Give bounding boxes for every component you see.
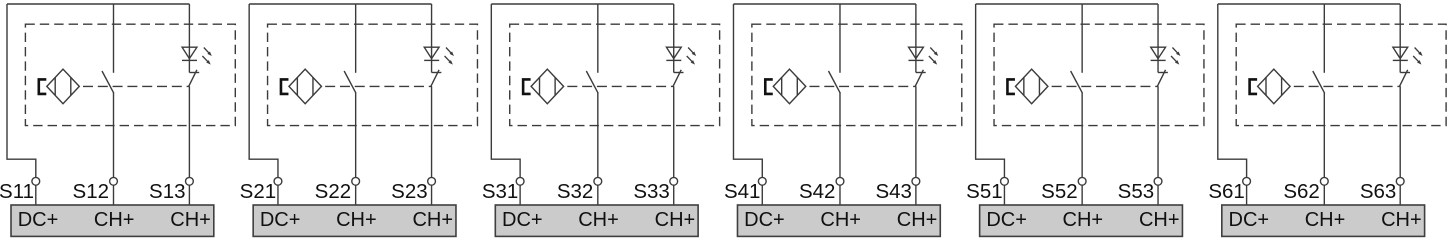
wire top bus B6 — [1218, 3, 1400, 5]
LED D6 emission arrow 1 — [1415, 48, 1423, 57]
terminal node S62 — [1320, 177, 1328, 185]
svg-text:CH+: CH+ — [412, 209, 453, 231]
svg-text:S51: S51 — [966, 180, 1002, 203]
sensor enclosure (dashed) B4 — [752, 24, 962, 125]
proximity sensor B1 bracket — [39, 79, 47, 94]
LED D6 cathode bar — [1393, 59, 1408, 61]
LED D3 emission arrow 1 — [688, 48, 696, 57]
LED D1 cathode bar — [182, 59, 197, 61]
svg-text:DC+: DC+ — [1229, 209, 1270, 231]
wire DC+ branch (S31) — [491, 4, 520, 177]
wire top bus B2 — [249, 3, 431, 5]
sensor enclosure (dashed) B6 — [1236, 24, 1446, 125]
svg-text:S31: S31 — [482, 180, 518, 203]
LED D5 (triangle) — [1151, 47, 1166, 58]
svg-text:DC+: DC+ — [18, 209, 59, 231]
proximity sensor B3 diamond — [531, 69, 564, 104]
terminal node S21 — [274, 177, 282, 185]
terminal node S53 — [1154, 177, 1162, 185]
wire right branch upper (through LED) B1 — [188, 4, 190, 73]
svg-text:CH+: CH+ — [336, 209, 377, 231]
wire right branch lower (S13) — [188, 86, 190, 177]
wire DC+ branch (S21) — [249, 4, 278, 177]
svg-text:DC+: DC+ — [744, 209, 785, 231]
sensor block B6 — [1208, 4, 1446, 236]
LED D2 emission arrow 1 — [446, 48, 454, 57]
switch contact K6b fixed tick — [1400, 72, 1410, 74]
terminal node S43 — [912, 177, 920, 185]
terminal node S61 — [1243, 177, 1251, 185]
mechanical link (dashed) B4 — [809, 85, 916, 87]
svg-text:S12: S12 — [73, 180, 109, 203]
svg-text:CH+: CH+ — [897, 209, 938, 231]
terminal block TB4 — [737, 205, 940, 236]
terminal node S42 — [836, 177, 844, 185]
terminal block TB2 — [253, 205, 456, 236]
switch contact K6a (movable arm) — [1313, 71, 1325, 93]
terminal node S32 — [594, 177, 602, 185]
LED D3 emission arrow 2 — [687, 56, 695, 65]
svg-text:S22: S22 — [315, 180, 351, 203]
LED D1 emission arrow 1 — [204, 48, 212, 57]
proximity sensor B6 bracket — [1250, 79, 1258, 94]
sensor enclosure (dashed) B5 — [994, 24, 1204, 125]
wire middle branch lower (S42) — [839, 93, 841, 178]
wire middle branch upper (to switch) B6 — [1323, 4, 1325, 73]
LED D2 emission arrow 2 — [445, 56, 453, 65]
mechanical link (dashed) B6 — [1294, 85, 1401, 87]
switch contact K5a (movable arm) — [1071, 71, 1083, 93]
wire right branch upper (through LED) B5 — [1157, 4, 1159, 73]
wire top bus B1 — [7, 3, 189, 5]
switch contact K1b fixed tick — [189, 72, 199, 74]
svg-text:CH+: CH+ — [1305, 209, 1346, 231]
terminal node S41 — [758, 177, 766, 185]
terminal node S52 — [1078, 177, 1086, 185]
terminal block TB3 — [495, 205, 698, 236]
svg-text:S21: S21 — [240, 180, 276, 203]
LED D4 emission arrow 1 — [930, 48, 938, 57]
wire right branch lower (S33) — [673, 86, 675, 177]
wire middle branch upper (to switch) B2 — [355, 4, 357, 73]
wire top bus B5 — [976, 3, 1158, 5]
wire middle branch lower (S22) — [355, 93, 357, 178]
svg-text:CH+: CH+ — [820, 209, 861, 231]
proximity sensor B3 inner line 2 — [554, 77, 556, 95]
mechanical link (dashed) B5 — [1052, 85, 1159, 87]
wire right branch lower (S53) — [1157, 86, 1159, 177]
wire top bus B4 — [733, 3, 915, 5]
LED D3 (triangle) — [666, 47, 681, 58]
wire right branch upper (through LED) B2 — [431, 4, 433, 73]
wire middle branch lower (S32) — [597, 93, 599, 178]
sensor block B1 — [0, 4, 235, 236]
LED D4 (triangle) — [909, 47, 924, 58]
wire right branch lower (S43) — [915, 86, 917, 177]
switch contact K1b (movable arm) — [189, 70, 197, 87]
switch contact K2b fixed tick — [432, 72, 442, 74]
svg-text:S52: S52 — [1041, 180, 1077, 203]
proximity sensor B2 inner line 1 — [296, 77, 298, 95]
sensor enclosure (dashed) B3 — [510, 24, 720, 125]
switch contact K4b fixed tick — [916, 72, 926, 74]
proximity sensor B4 bracket — [765, 79, 773, 94]
terminal node S31 — [516, 177, 524, 185]
LED D6 (triangle) — [1393, 47, 1408, 58]
switch contact K2b (movable arm) — [431, 70, 439, 87]
proximity sensor B2 bracket — [281, 79, 289, 94]
LED D1 (triangle) — [182, 47, 197, 58]
terminal node S51 — [1001, 177, 1009, 185]
svg-text:S11: S11 — [0, 180, 34, 203]
switch contact K1a (movable arm) — [102, 71, 114, 93]
svg-text:DC+: DC+ — [260, 209, 301, 231]
svg-text:S23: S23 — [391, 180, 427, 203]
wire right branch upper (through LED) B3 — [673, 4, 675, 73]
LED D4 cathode bar — [908, 59, 923, 61]
svg-text:S61: S61 — [1208, 180, 1244, 203]
proximity sensor B4 inner line 2 — [796, 77, 798, 95]
proximity sensor B5 bracket — [1007, 79, 1015, 94]
proximity sensor B1 inner line 1 — [54, 77, 56, 95]
mechanical link (dashed) B3 — [567, 85, 674, 87]
sensor enclosure (dashed) B2 — [268, 24, 478, 125]
terminal node S13 — [186, 177, 194, 185]
proximity sensor B1 inner line 2 — [70, 77, 72, 95]
LED D5 emission arrow 1 — [1172, 48, 1180, 57]
svg-text:S63: S63 — [1360, 180, 1396, 203]
svg-text:CH+: CH+ — [94, 209, 135, 231]
sensor block B3 — [482, 4, 720, 236]
switch contact K3b (movable arm) — [673, 70, 681, 87]
svg-text:S13: S13 — [149, 180, 185, 203]
terminal block TB5 — [980, 205, 1183, 236]
terminal node S23 — [428, 177, 436, 185]
switch contact K3a (movable arm) — [586, 71, 598, 93]
proximity sensor B4 diamond — [773, 69, 806, 104]
terminal node S11 — [32, 177, 40, 185]
proximity sensor B5 inner line 1 — [1023, 77, 1025, 95]
proximity sensor B5 inner line 2 — [1038, 77, 1040, 95]
proximity sensor B5 diamond — [1015, 69, 1047, 104]
proximity sensor B6 inner line 1 — [1265, 77, 1267, 95]
wire right branch lower (S23) — [431, 86, 433, 177]
LED D1 emission arrow 2 — [202, 56, 210, 65]
wire middle branch lower (S62) — [1323, 93, 1325, 178]
proximity sensor B4 inner line 1 — [781, 77, 783, 95]
wire middle branch upper (to switch) B1 — [113, 4, 115, 73]
wire DC+ branch (S61) — [1218, 4, 1247, 177]
terminal block TB6 — [1222, 205, 1425, 236]
svg-text:CH+: CH+ — [1139, 209, 1180, 231]
svg-text:DC+: DC+ — [502, 209, 543, 231]
switch contact K5b (movable arm) — [1157, 70, 1165, 87]
sensor block B2 — [240, 4, 478, 236]
LED D3 cathode bar — [666, 59, 681, 61]
svg-text:CH+: CH+ — [578, 209, 619, 231]
wire middle branch upper (to switch) B5 — [1081, 4, 1083, 73]
wire right branch lower (S63) — [1399, 86, 1401, 177]
svg-text:CH+: CH+ — [1381, 209, 1422, 231]
proximity sensor B2 diamond — [289, 69, 322, 104]
LED D5 emission arrow 2 — [1171, 56, 1179, 65]
svg-text:DC+: DC+ — [986, 209, 1027, 231]
svg-text:CH+: CH+ — [655, 209, 696, 231]
svg-text:S62: S62 — [1283, 180, 1319, 203]
terminal node S12 — [110, 177, 118, 185]
wire middle branch upper (to switch) B4 — [839, 4, 841, 73]
terminal block TB1 — [11, 205, 214, 236]
svg-text:S32: S32 — [557, 180, 593, 203]
wire top bus B3 — [491, 3, 673, 5]
terminal node S63 — [1396, 177, 1404, 185]
LED D5 cathode bar — [1151, 59, 1166, 61]
sensor enclosure (dashed) B1 — [25, 24, 235, 125]
proximity sensor B2 inner line 2 — [312, 77, 314, 95]
switch contact K6b (movable arm) — [1399, 70, 1407, 87]
proximity sensor B6 inner line 2 — [1281, 77, 1283, 95]
svg-text:S53: S53 — [1118, 180, 1154, 203]
wire DC+ branch (S51) — [976, 4, 1005, 177]
proximity sensor B3 inner line 1 — [539, 77, 541, 95]
svg-text:CH+: CH+ — [1063, 209, 1104, 231]
proximity sensor B6 diamond — [1258, 69, 1291, 104]
wire middle branch lower (S52) — [1081, 93, 1083, 178]
terminal node S22 — [352, 177, 360, 185]
LED D6 emission arrow 2 — [1413, 56, 1421, 65]
wire middle branch lower (S12) — [113, 93, 115, 178]
wire right branch upper (through LED) B6 — [1399, 4, 1401, 73]
proximity sensor B1 diamond — [47, 69, 80, 104]
switch contact K2a (movable arm) — [344, 71, 356, 93]
proximity sensor B3 bracket — [523, 79, 531, 94]
sensor block B5 — [966, 4, 1204, 236]
wire DC+ branch (S11) — [7, 4, 36, 177]
LED D4 emission arrow 2 — [929, 56, 937, 65]
wire right branch upper (through LED) B4 — [915, 4, 917, 73]
switch contact K4b (movable arm) — [915, 70, 923, 87]
svg-text:S42: S42 — [799, 180, 835, 203]
wire middle branch upper (to switch) B3 — [597, 4, 599, 73]
svg-text:CH+: CH+ — [170, 209, 211, 231]
switch contact K4a (movable arm) — [828, 71, 840, 93]
LED D2 cathode bar — [424, 59, 439, 61]
mechanical link (dashed) B1 — [83, 85, 190, 87]
svg-text:S33: S33 — [633, 180, 669, 203]
switch contact K3b fixed tick — [674, 72, 684, 74]
LED D2 (triangle) — [424, 47, 439, 58]
terminal node S33 — [670, 177, 678, 185]
svg-text:S41: S41 — [724, 180, 760, 203]
sensor block B4 — [724, 4, 962, 236]
switch contact K5b fixed tick — [1158, 72, 1168, 74]
mechanical link (dashed) B2 — [325, 85, 432, 87]
wire DC+ branch (S41) — [733, 4, 762, 177]
svg-text:S43: S43 — [875, 180, 911, 203]
